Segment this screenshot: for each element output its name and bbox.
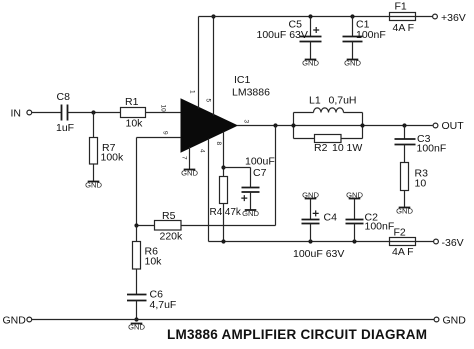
svg-text:1W: 1W [347, 142, 363, 154]
node pin5/+rail junction [211, 14, 215, 18]
terminal -36V [434, 237, 464, 249]
wire to C3 [404, 126, 406, 140]
svg-text:5: 5 [205, 99, 212, 103]
svg-text:7: 7 [181, 156, 188, 160]
svg-text:47k: 47k [225, 207, 242, 218]
ground (R3) [396, 206, 413, 215]
terminal +36V [433, 12, 466, 24]
svg-text:10: 10 [332, 142, 344, 154]
resistor R2 [294, 135, 363, 155]
wire op-amp output pin 3 [237, 125, 433, 127]
svg-text:3: 3 [243, 120, 250, 124]
capacitor C2 [346, 211, 395, 232]
capacitor C6 [127, 289, 176, 312]
wire C3 to R3 [404, 145, 406, 163]
wire +36V rail [199, 16, 390, 18]
svg-text:F2: F2 [394, 227, 406, 239]
svg-text:GND: GND [181, 168, 198, 177]
wire pin 8 down [223, 132, 225, 177]
wire R6 to C6 [136, 269, 138, 295]
ground (above C2) [346, 190, 363, 199]
wire C4 to -rail [310, 224, 312, 242]
svg-text:-36V: -36V [442, 237, 464, 249]
svg-text:4: 4 [199, 149, 206, 153]
wire L-box right vertical [362, 113, 364, 139]
wire R1 to op-amp pin 10 [146, 112, 182, 114]
node C6/ground-line junction [134, 317, 138, 321]
svg-text:0,7uH: 0,7uH [329, 94, 357, 106]
svg-text:10: 10 [415, 178, 427, 190]
wire IN to C8 [32, 112, 62, 114]
svg-text:C8: C8 [57, 91, 71, 103]
svg-text:GND: GND [443, 315, 467, 327]
capacitor C4 [293, 210, 344, 260]
terminal GND right [434, 315, 466, 327]
capacitor C1 [343, 19, 386, 42]
wire F2 to -36V terminal [416, 241, 434, 243]
wire C8 to R1 [68, 112, 121, 114]
svg-text:R4: R4 [210, 207, 223, 218]
svg-text:10k: 10k [145, 256, 163, 268]
capacitor C7 [241, 156, 274, 202]
wire C5 to ground [310, 42, 312, 60]
svg-text:GND: GND [302, 58, 319, 67]
svg-text:L1: L1 [309, 94, 321, 106]
node C2/-rail [352, 239, 356, 243]
ground (C1) [344, 58, 361, 67]
op-amp U1 triangle [181, 99, 237, 152]
wire C7 to ground [250, 192, 252, 210]
svg-text:4,7uF: 4,7uF [150, 299, 177, 311]
wire L-box left vertical [293, 113, 295, 139]
svg-text:R2: R2 [314, 142, 328, 154]
capacitor C3 [395, 133, 447, 154]
svg-text:10k: 10k [126, 118, 144, 130]
wire R4 to -rail [223, 204, 225, 242]
wire C1 to ground [352, 42, 354, 60]
resistor R4 [210, 177, 242, 219]
node C1/+rail [350, 14, 354, 18]
node pin8/R4/C7 junction [221, 165, 225, 169]
node C5/+rail [308, 14, 312, 18]
wire op-amp pin 9 to feedback node [137, 138, 182, 226]
node R5/R6/pin9 junction [134, 223, 138, 227]
svg-text:100uF 63V: 100uF 63V [293, 248, 344, 260]
svg-text:1uF: 1uF [56, 122, 74, 134]
wire feedback vertical [275, 126, 277, 226]
ground (R7) [85, 180, 102, 189]
label IC1 LM3886 [232, 74, 270, 99]
wire junction down to R7 [93, 113, 95, 138]
wire rail to C5 [310, 17, 312, 37]
svg-text:IC1: IC1 [234, 74, 251, 86]
resistor R3 [401, 163, 429, 191]
svg-text:9: 9 [162, 131, 169, 135]
svg-text:100nF: 100nF [356, 29, 386, 41]
wire feedback horizontal [181, 225, 276, 227]
node C4/-rail [308, 239, 312, 243]
terminal GND left [3, 315, 32, 327]
wire R7 to ground [93, 164, 95, 182]
svg-text:IN: IN [11, 108, 22, 120]
svg-text:+36V: +36V [441, 12, 466, 24]
node R4/-rail [221, 239, 225, 243]
svg-text:8: 8 [215, 142, 222, 146]
wire junction to C7 [224, 168, 251, 188]
svg-text:R1: R1 [125, 96, 139, 108]
svg-text:C7: C7 [253, 167, 267, 179]
wire rail to C1 [352, 17, 354, 37]
svg-text:OUT: OUT [442, 120, 465, 132]
svg-text:4A F: 4A F [392, 246, 414, 258]
wire pin 5 to +rail [213, 17, 215, 116]
svg-text:GND: GND [3, 315, 27, 327]
svg-text:100nF: 100nF [365, 220, 395, 232]
terminal OUT [433, 120, 464, 132]
node output/feedback [273, 123, 277, 127]
ground (below C6 junction) [128, 322, 145, 331]
svg-text:LM3886 AMPLIFIER CIRCUIT DIAGR: LM3886 AMPLIFIER CIRCUIT DIAGRAM [167, 327, 427, 342]
wire ground line [32, 319, 434, 321]
svg-text:C4: C4 [324, 212, 338, 224]
capacitor C5 [257, 19, 322, 42]
wire ground to C4 [310, 199, 312, 220]
ground (C5) [302, 58, 319, 67]
svg-text:10: 10 [160, 105, 167, 113]
wire R3 to ground [404, 191, 406, 208]
svg-text:100nF: 100nF [417, 143, 447, 155]
svg-text:GND: GND [85, 180, 102, 189]
svg-text:F1: F1 [395, 1, 407, 13]
svg-text:GND: GND [242, 209, 259, 218]
ground (above C4) [302, 190, 319, 199]
resistor R6 [133, 242, 163, 270]
node L-box right [360, 123, 364, 127]
fuse F1 [390, 1, 416, 34]
wire ground to C2 [354, 199, 356, 220]
wire R5 to junction [137, 225, 155, 227]
fuse F2 [390, 227, 416, 259]
ground (C7) [242, 209, 259, 218]
node L-box left [291, 123, 295, 127]
wire -36V rail [209, 241, 390, 243]
svg-text:R5: R5 [162, 210, 176, 222]
capacitor C8 [56, 91, 74, 134]
resistor R7 [90, 138, 125, 165]
svg-text:GND: GND [344, 58, 361, 67]
terminal IN [11, 108, 32, 120]
wire junction to R6 [136, 226, 138, 242]
wire pin 4 down to -rail [208, 139, 210, 242]
svg-text:LM3886: LM3886 [232, 87, 270, 99]
svg-text:GND: GND [128, 322, 145, 331]
ground (pin 7) [181, 168, 198, 177]
resistor R1 [121, 96, 146, 129]
wire pin 1 to +rail [198, 17, 200, 109]
wire C2 to -rail [354, 224, 356, 242]
svg-text:1: 1 [189, 90, 196, 94]
inductor L1 [294, 94, 363, 112]
wire C6 to ground line [136, 301, 138, 320]
node C3 tap [402, 123, 406, 127]
node C8/R7 junction [91, 110, 95, 114]
svg-text:100k: 100k [101, 152, 125, 164]
svg-text:100uF 63V: 100uF 63V [257, 29, 308, 41]
wire pin 7 to ground [189, 147, 191, 170]
wire F1 to +36V terminal [416, 16, 433, 18]
svg-text:100uF: 100uF [245, 156, 275, 168]
resistor R5 [155, 210, 184, 243]
svg-text:220k: 220k [160, 231, 184, 243]
svg-text:GND: GND [396, 206, 413, 215]
svg-text:4A F: 4A F [393, 22, 415, 34]
